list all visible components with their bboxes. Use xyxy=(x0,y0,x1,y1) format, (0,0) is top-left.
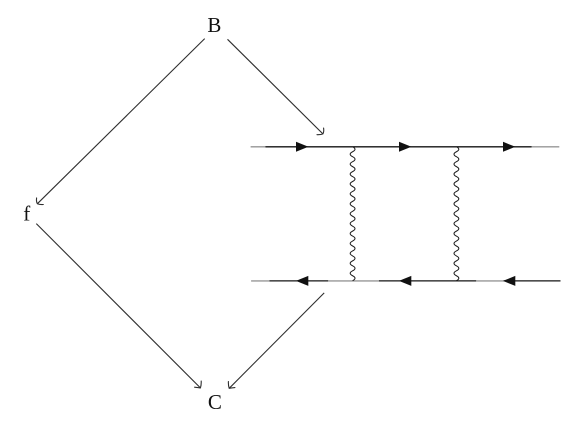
svg-text:C: C xyxy=(208,390,222,414)
bottom fermion line: gray left end xyxy=(251,280,269,282)
arrow f to C (shaft) xyxy=(36,224,200,388)
photon (wavy) line 2 xyxy=(454,147,459,281)
top line arrow 1 (right-pointing triangle) xyxy=(296,142,308,152)
top line arrow 3 (right-pointing triangle) xyxy=(503,142,515,152)
arrow bottom fermion line to C (shaft) xyxy=(229,293,324,388)
photon (wavy) line 1 xyxy=(350,147,355,281)
bottom line arrow 3 (left-pointing triangle) xyxy=(503,276,515,286)
bottom fermion line: black segment 2 xyxy=(379,280,476,282)
top fermion line: gray left end xyxy=(251,146,266,148)
bottom fermion line: black segment 1 xyxy=(270,280,329,282)
bottom line arrow 2 (left-pointing triangle) xyxy=(399,276,411,286)
top fermion line: gray right end xyxy=(532,146,560,148)
bottom fermion line: gray segment under vertex 1 xyxy=(328,280,379,282)
bottom fermion line: gray segment 3 xyxy=(476,280,504,282)
arrow f to C (head) xyxy=(195,381,202,388)
arrow B to f (head) xyxy=(36,198,43,205)
arrow B to f (shaft) xyxy=(37,39,204,204)
top fermion line: black main segment xyxy=(266,146,532,148)
svg-text:B: B xyxy=(207,13,221,37)
arrow B to top fermion line (shaft) xyxy=(228,39,323,134)
bottom fermion line: black right end xyxy=(504,280,561,282)
arrow B to top fermion line (head) xyxy=(317,128,324,135)
bottom line arrow 1 (left-pointing triangle) xyxy=(296,276,308,286)
top line arrow 2 (right-pointing triangle) xyxy=(399,142,411,152)
arrow bottom fermion line to C (head) xyxy=(228,382,235,389)
svg-text:f: f xyxy=(23,202,30,226)
